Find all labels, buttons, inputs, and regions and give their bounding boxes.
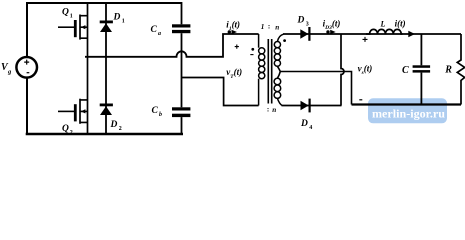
svg-text:1: 1 (122, 18, 125, 24)
label D1 (113, 12, 125, 24)
wire capacitor midpoint to primary return (182, 78, 259, 106)
svg-text:2: 2 (70, 130, 73, 136)
label R (444, 65, 452, 76)
label Vg (1, 62, 12, 76)
label Q1 (62, 8, 73, 20)
svg-text:1: 1 (261, 23, 265, 31)
label Q2 (62, 124, 73, 136)
svg-text:a: a (158, 31, 161, 37)
watermark merlin-igor.ru (368, 98, 447, 123)
diode D1 (100, 3, 113, 57)
resistor R (457, 34, 464, 105)
capacitor Ca (172, 2, 190, 107)
svg-text:merlin-igor.ru: merlin-igor.ru (372, 107, 445, 121)
label D4 (300, 119, 312, 131)
label vs(t) (358, 64, 373, 77)
wire node A down to D4 (hop over center tap) (341, 34, 344, 106)
wire secondary bottom through D4 (282, 105, 342, 107)
wire bottom rail (26, 133, 183, 136)
svg-text:R: R (444, 65, 452, 76)
label i1(t) (226, 20, 240, 33)
inductor L (366, 29, 403, 34)
svg-text:D: D (300, 119, 308, 129)
current arrow i(t) (408, 31, 415, 37)
svg-text:C: C (152, 106, 159, 116)
capacitor C (413, 34, 431, 105)
svg-text:n: n (272, 106, 276, 114)
label D3 (297, 16, 309, 28)
label Cb (152, 106, 163, 118)
svg-text:1: 1 (70, 14, 73, 20)
svg-text:3: 3 (306, 22, 309, 28)
svg-text:L: L (380, 20, 386, 29)
transformer secondary top winding (274, 34, 283, 66)
svg-text::: : (268, 23, 270, 31)
diode D2 (100, 57, 113, 134)
label : n (bottom) (267, 106, 276, 115)
svg-text:Q: Q (62, 124, 69, 134)
polarity dot primary (251, 48, 254, 51)
transistor Q1 (58, 3, 88, 57)
svg-text:Q: Q (62, 8, 69, 18)
wire output bottom rail (352, 103, 462, 105)
label 1 : n (261, 23, 280, 32)
label vT(t) (226, 67, 242, 80)
svg-text:2: 2 (119, 126, 122, 132)
label + of vT (235, 45, 239, 49)
transistor Q2 (58, 57, 88, 134)
svg-text:D: D (110, 120, 118, 130)
wire bridge midpoint to primary (with hop over capacitor leg) (85, 34, 259, 57)
current arrow i1 (228, 30, 237, 35)
source Vg (16, 57, 37, 78)
wire top rail (26, 2, 182, 4)
svg-text:i(t): i(t) (395, 19, 406, 29)
svg-text::: : (267, 106, 269, 114)
label C (402, 65, 409, 76)
transformer primary winding (259, 34, 265, 106)
label Ca (151, 25, 162, 37)
label D2 (110, 120, 122, 132)
svg-text:n: n (275, 23, 279, 31)
current arrow iD3 (326, 30, 335, 35)
capacitor Cb (172, 107, 190, 134)
svg-text:D: D (113, 12, 121, 22)
label - of vT (250, 54, 253, 56)
label iD3(t) (323, 19, 341, 32)
watermark text (372, 107, 445, 121)
wire center tap (277, 66, 351, 104)
transformer core (268, 39, 271, 104)
svg-text:C: C (151, 25, 158, 35)
transformer secondary bottom winding (274, 78, 282, 105)
label - of vs (359, 99, 362, 101)
diode D3 (300, 27, 309, 41)
svg-text:4: 4 (309, 125, 312, 131)
label L (380, 20, 386, 29)
polarity dot secondary (283, 39, 286, 42)
svg-text:D: D (297, 16, 305, 26)
label i(t) (395, 19, 406, 29)
svg-text:b: b (159, 112, 162, 118)
wire left vertical (Vg to rails) (26, 2, 28, 134)
label + of vs (363, 37, 368, 42)
svg-text:C: C (402, 65, 409, 76)
wire secondary top to node A (283, 33, 461, 35)
diode D4 (301, 99, 310, 113)
